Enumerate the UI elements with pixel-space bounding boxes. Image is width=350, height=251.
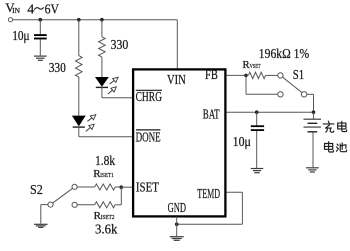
- svg-text:DONE: DONE: [136, 130, 161, 145]
- svg-text:1.8k: 1.8k: [95, 154, 115, 169]
- svg-text:BAT: BAT: [203, 108, 220, 123]
- svg-text:GND: GND: [168, 201, 186, 216]
- svg-text:10μ: 10μ: [233, 134, 251, 149]
- svg-text:330: 330: [49, 60, 66, 75]
- svg-text:ISET2: ISET2: [101, 214, 115, 221]
- svg-text:196kΩ 1%: 196kΩ 1%: [259, 46, 309, 61]
- svg-text:S1: S1: [293, 68, 304, 83]
- svg-text:3.6k: 3.6k: [95, 222, 117, 237]
- svg-text:ISET: ISET: [136, 180, 159, 195]
- svg-text:CHRG: CHRG: [136, 89, 163, 104]
- svg-text:VSET: VSET: [250, 63, 261, 70]
- svg-text:10μ: 10μ: [12, 28, 29, 43]
- svg-text:FB: FB: [205, 68, 218, 83]
- svg-text:S2: S2: [30, 183, 43, 198]
- svg-text:ISET1: ISET1: [100, 172, 113, 179]
- svg-text:6V: 6V: [45, 2, 59, 17]
- svg-text:330: 330: [111, 37, 129, 52]
- svg-text:VIN: VIN: [167, 73, 186, 88]
- svg-text:TEMD: TEMD: [197, 187, 220, 202]
- svg-text:4: 4: [27, 2, 34, 17]
- svg-text:IN: IN: [12, 6, 20, 15]
